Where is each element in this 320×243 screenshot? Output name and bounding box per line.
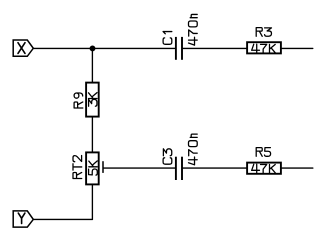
trimmer resistor RT2 xyxy=(73,152,103,184)
wire bottom to Y xyxy=(33,218,92,220)
value 3K xyxy=(88,93,97,107)
value 470n xyxy=(189,14,198,45)
wire X to C1 xyxy=(33,47,175,49)
label C3 xyxy=(163,149,172,164)
wire C1 to R3 xyxy=(183,47,246,49)
wire RT2 down xyxy=(91,185,93,219)
junction node xyxy=(90,45,96,51)
wire R3 right xyxy=(282,47,313,49)
value 5K xyxy=(89,161,98,175)
wire wiper to C3 xyxy=(104,167,175,169)
label C1 xyxy=(163,32,172,45)
value 47K xyxy=(252,164,276,173)
terminal Y xyxy=(13,211,33,227)
wire junction down to R9 xyxy=(91,48,93,82)
value 470n xyxy=(189,134,198,165)
label RT2 xyxy=(73,155,82,178)
value 47K xyxy=(252,44,276,53)
wiper contact bar xyxy=(102,161,104,173)
resistor R9 xyxy=(74,83,99,117)
label R9 xyxy=(74,93,83,108)
wire R5 right xyxy=(282,167,313,169)
label R5 xyxy=(256,148,270,157)
wire C3 to R5 xyxy=(183,167,246,169)
label R3 xyxy=(256,28,271,37)
wire R9 to RT2 xyxy=(91,118,93,152)
capacitor C3 xyxy=(163,134,197,180)
capacitor C1 xyxy=(163,14,197,59)
terminal X xyxy=(13,40,33,56)
resistor R5 xyxy=(247,148,281,174)
resistor R3 xyxy=(247,28,281,54)
